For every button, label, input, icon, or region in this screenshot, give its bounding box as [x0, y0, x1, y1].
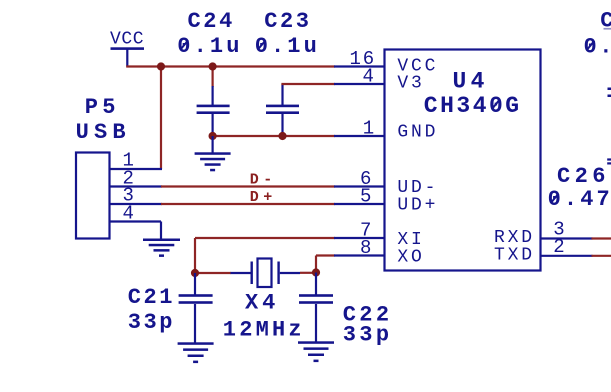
power bar fragment (top right edge) — [604, 28, 611, 30]
P5 pin 4 — [110, 220, 162, 222]
wire USB pin1 riser — [160, 67, 162, 170]
wire P5 pin4 to ground — [160, 222, 162, 240]
wire D- — [161, 185, 335, 187]
svg-text:C26: C26 — [557, 164, 610, 189]
junction XO / crystal / C22 — [312, 268, 320, 276]
U4 pin 5 UD+ — [334, 203, 385, 205]
svg-text:5: 5 — [360, 186, 373, 208]
wire GND rail — [212, 135, 336, 137]
svg-text:4: 4 — [363, 66, 376, 88]
svg-text:0.1u: 0.1u — [177, 34, 242, 59]
U4 pin 8 XO — [334, 254, 385, 256]
junction XI / crystal / C21 — [191, 269, 199, 277]
IC U4 box — [385, 50, 541, 271]
junction VCC rail / pin1 riser — [157, 62, 165, 70]
U4 pin 7 XI — [334, 237, 385, 239]
svg-text:TXD: TXD — [494, 245, 535, 265]
svg-text:UD+: UD+ — [397, 196, 438, 216]
svg-text:D+: D+ — [250, 189, 277, 206]
svg-text:8: 8 — [360, 237, 373, 259]
svg-text:0.1: 0.1 — [584, 34, 611, 59]
svg-text:C2: C2 — [600, 9, 611, 34]
P5 pin 3 — [110, 203, 163, 205]
svg-text:V3: V3 — [397, 73, 424, 93]
U4 pin 1 GND — [334, 135, 385, 137]
svg-text:VCC: VCC — [110, 30, 144, 50]
wire XI net — [195, 238, 335, 273]
svg-text:C24: C24 — [188, 9, 235, 34]
capacitor C25 plates (clipped at edge) — [608, 88, 611, 98]
svg-text:33p: 33p — [343, 323, 393, 348]
svg-text:D-: D- — [250, 172, 277, 189]
P5 pin 2 — [110, 185, 163, 187]
wire VCC rail — [126, 65, 335, 67]
P5 pin 1 — [110, 168, 163, 170]
wire XO net — [300, 256, 335, 273]
svg-text:4: 4 — [123, 202, 136, 224]
capacitor C23 — [266, 84, 299, 136]
svg-text:USB: USB — [76, 120, 131, 145]
connector P5 box — [76, 153, 110, 239]
U4 pin 3 RXD — [540, 237, 593, 239]
U4 pin 16 VCC — [334, 65, 385, 67]
svg-text:XO: XO — [397, 247, 424, 267]
svg-text:X4: X4 — [245, 291, 279, 316]
svg-text:GND: GND — [397, 122, 438, 142]
slashed zero marks (pixel-font style) — [180, 40, 594, 203]
crystal X4 — [231, 259, 301, 288]
svg-text:C21: C21 — [128, 285, 175, 310]
svg-text:U4: U4 — [453, 68, 489, 94]
junction GND rail / C23 — [278, 132, 286, 140]
wire RXD to edge — [592, 237, 611, 239]
svg-text:12MHz: 12MHz — [223, 318, 305, 343]
wire V3 to C23 — [281, 83, 335, 85]
junction GND rail / C24 — [209, 132, 217, 140]
power symbol VCC — [110, 30, 144, 67]
svg-text:0.47: 0.47 — [548, 187, 611, 212]
svg-text:P5: P5 — [85, 95, 120, 120]
capacitor C21 — [179, 273, 213, 343]
ground (below C22) — [298, 341, 334, 362]
svg-text:2: 2 — [553, 236, 566, 258]
U4 pin 6 UD- — [334, 185, 385, 187]
ground (below P5 pin 4) — [143, 239, 180, 257]
capacitor C24 — [197, 86, 230, 136]
svg-text:C23: C23 — [264, 9, 311, 34]
svg-text:0.1u: 0.1u — [255, 34, 320, 59]
U4 pin 2 TXD — [540, 255, 593, 257]
wire C24 top lead (net) — [212, 67, 214, 88]
wire D+ — [161, 203, 335, 205]
fragment near C26 (clipped) — [607, 158, 611, 164]
ground (below C24) — [195, 136, 231, 171]
wire TXD to edge — [592, 255, 611, 257]
svg-text:33p: 33p — [128, 310, 175, 335]
capacitor C22 — [299, 273, 333, 343]
ground (below C21) — [178, 342, 214, 363]
svg-text:1: 1 — [363, 118, 376, 140]
U4 pin 4 V3 — [334, 83, 385, 85]
junction VCC rail / C24 — [209, 62, 217, 70]
svg-text:CH340G: CH340G — [424, 93, 522, 119]
